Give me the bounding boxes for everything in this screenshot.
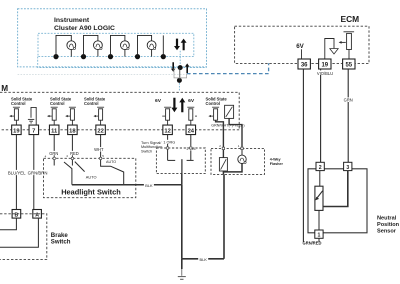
svg-text:Multifunction: Multifunction — [141, 145, 162, 149]
flasher lamp — [238, 150, 246, 164]
wire resistor to pin1 — [318, 210, 320, 230]
svg-text:Headlight Switch: Headlight Switch — [61, 187, 121, 196]
ground net vertical — [181, 185, 183, 259]
ECM internal resistor above pin 55 — [344, 32, 355, 59]
pole wire down to ground net — [181, 174, 183, 185]
brake switch pin B — [12, 210, 21, 219]
svg-text:6V: 6V — [188, 98, 195, 104]
svg-text:WHT: WHT — [94, 147, 104, 152]
bold arrow down (turn signal data) — [171, 98, 177, 112]
svg-text:AUTO: AUTO — [106, 160, 116, 164]
4-way flasher box — [211, 148, 265, 174]
BCM pin 19 — [12, 125, 22, 135]
signal arrow up (inside cluster) — [181, 39, 187, 51]
svg-text:A: A — [35, 212, 39, 218]
turn signal right contact — [187, 159, 194, 161]
ECM pin 19 — [319, 59, 331, 69]
svg-text:GRN: GRN — [49, 151, 58, 156]
svg-text:Instrument: Instrument — [54, 17, 90, 24]
ECM pin 55 — [343, 59, 355, 69]
svg-text:18: 18 — [69, 129, 76, 135]
node J1 — [178, 65, 183, 70]
instrument cluster inner logic box — [38, 33, 194, 56]
solid state driver above pin 22 — [93, 107, 104, 125]
ECM pin 36 — [298, 59, 310, 69]
signal arrow down (inside cluster) — [174, 39, 180, 51]
turn signal terminal ticks — [167, 147, 192, 149]
indicator lamp L1 — [67, 41, 76, 57]
wire label 1 ORG — [162, 140, 177, 145]
svg-text:Switch: Switch — [141, 150, 152, 154]
BCM pin 11 — [49, 125, 59, 135]
svg-text:B: B — [15, 212, 19, 218]
node J2 — [177, 78, 182, 83]
solid state driver (hazard) — [208, 107, 219, 120]
svg-text:36: 36 — [301, 63, 308, 69]
junction dot D2 and feed hook — [81, 35, 98, 59]
wire pin3 to wiper (thick) — [323, 171, 348, 207]
BCM pin 18 — [68, 125, 78, 135]
BCM pin 22 — [96, 125, 106, 135]
headlight switch common bus to BLK wire — [72, 184, 182, 186]
svg-text:Sensor: Sensor — [377, 229, 397, 235]
wire label BLK — [198, 256, 208, 262]
svg-text:6V: 6V — [155, 98, 162, 104]
ECM resistor wiper arrow — [339, 41, 346, 44]
BCM pin 12 — [163, 125, 173, 135]
sensor variable resistor — [315, 186, 323, 210]
solid state switch (hazard) — [225, 105, 234, 118]
svg-text:RED: RED — [70, 151, 79, 156]
svg-text:6V: 6V — [296, 43, 304, 50]
svg-text:4-Way: 4-Way — [270, 158, 282, 162]
svg-text:AUTO: AUTO — [86, 175, 97, 180]
turn signal common pole — [181, 159, 183, 173]
instrument cluster outer box — [18, 9, 207, 67]
ECM box — [235, 26, 369, 63]
indicator lamp L4 — [147, 41, 156, 57]
flasher terminal tick 2 — [222, 147, 224, 149]
headlight switch box — [44, 158, 136, 197]
junction dot D1 and feed hook — [53, 35, 71, 59]
neutral position sensor box — [308, 169, 367, 233]
turn signal switch box — [156, 148, 205, 174]
wire ECM19 to sensor pin 2 — [320, 69, 322, 162]
svg-text:Flasher: Flasher — [270, 162, 284, 166]
switch blade 2 — [75, 162, 85, 172]
headlight terminal ticks — [53, 157, 102, 159]
junction dot D5 with stub — [161, 35, 166, 59]
svg-text:24: 24 — [188, 129, 195, 135]
ground symbol G1 — [178, 259, 186, 280]
dashed link arrows to bus — [179, 51, 181, 57]
serial data wire to ECM (blue dashed) — [187, 63, 269, 73]
wire label GRN — [49, 151, 59, 156]
wire hazard driver to flasher (jog) — [216, 120, 224, 148]
wire label GRN — [343, 97, 353, 102]
turn signal switch label — [141, 141, 162, 154]
wire BCM19 to brake switch B — [15, 135, 17, 210]
bracket wire around junction — [174, 69, 187, 78]
svg-text:ECM: ECM — [341, 14, 360, 24]
svg-text:Control: Control — [11, 101, 26, 106]
svg-text:12: 12 — [164, 129, 170, 135]
neutral position sensor label — [377, 215, 400, 234]
svg-text:GRN/RED: GRN/RED — [303, 241, 322, 246]
wire BCM12 to turn signal switch — [167, 135, 169, 161]
4-way flasher label — [270, 158, 284, 167]
svg-text:BLU/YEL: BLU/YEL — [8, 171, 26, 176]
internal ground above pin 7 — [28, 107, 36, 125]
wire flasher down to BLK horizontal — [223, 174, 225, 258]
flasher relay element — [219, 150, 227, 171]
bold arrow up (turn signal data) — [179, 98, 185, 112]
flasher terminal tick 1 — [241, 147, 243, 149]
wire label VIO/BLU — [317, 70, 334, 75]
wire ECM36 to sensor feed (6V) — [302, 69, 304, 242]
solid state driver above pin 12 — [162, 107, 171, 125]
serial data wire J2 to BCM (cyan dashed) — [178, 83, 180, 92]
solid state control label 2 — [50, 96, 72, 105]
svg-text:22: 22 — [97, 129, 103, 135]
svg-text:19: 19 — [13, 129, 20, 135]
brake switch box — [0, 214, 47, 260]
wire BCM24 to turn signal switch — [190, 135, 192, 161]
BCM pin 24 — [186, 125, 196, 135]
BCM box border — [0, 92, 239, 130]
svg-text:11: 11 — [51, 129, 58, 135]
flasher output to ground net — [222, 171, 224, 174]
switch blade 3 — [111, 166, 124, 185]
svg-text:Position: Position — [377, 222, 400, 228]
wire BCM11 to headlight switch — [53, 135, 55, 166]
svg-text:BLK: BLK — [145, 183, 153, 188]
wire BCM7 to brake switch A — [33, 135, 35, 210]
svg-text:GRN/BRN: GRN/BRN — [28, 171, 48, 176]
svg-text:Neutral: Neutral — [377, 215, 397, 221]
svg-text:Turn Signal/: Turn Signal/ — [141, 141, 162, 145]
junction arrow up — [185, 63, 190, 73]
svg-text:7: 7 — [32, 129, 35, 135]
svg-text:Control: Control — [206, 101, 221, 106]
solid state driver above pin 11 — [47, 107, 58, 125]
junction dot D4 and feed hook — [135, 35, 152, 59]
svg-text:Switch: Switch — [51, 238, 71, 245]
dashed link bus to node J1 — [179, 57, 181, 68]
svg-text:Control: Control — [50, 101, 65, 106]
sensor pin 3 — [344, 162, 352, 171]
wire pin A internal — [0, 218, 38, 247]
wire hazard switch to flasher lamp (jog) — [229, 118, 242, 148]
junction dot D3 and feed hook — [108, 35, 125, 59]
6V supply label at ECM pin 36 — [296, 43, 304, 59]
svg-text:BLK: BLK — [200, 257, 208, 262]
solid state control label 3 — [84, 96, 106, 105]
solid state driver above pin 24 — [187, 107, 197, 125]
wire label 2 YEL — [186, 146, 197, 151]
ECM internal ground hook above pin 19 — [325, 39, 338, 60]
svg-text:2: 2 — [319, 165, 322, 171]
lamp bus (cyan dashed) — [38, 57, 207, 68]
wire label BLK — [144, 182, 154, 188]
wire pin B internal — [0, 218, 16, 230]
brake switch pin A — [33, 210, 42, 219]
svg-text:55: 55 — [345, 63, 352, 69]
svg-text:1: 1 — [318, 233, 321, 239]
svg-text:3: 3 — [346, 165, 349, 171]
svg-text:M: M — [1, 84, 8, 93]
BCM pin 7 — [29, 125, 39, 135]
svg-text:1 ORG: 1 ORG — [163, 141, 175, 145]
sensor pin 2 — [316, 162, 324, 171]
svg-text:VIO/BLU: VIO/BLU — [317, 71, 333, 76]
solid state driver above pin 19 — [9, 107, 20, 125]
indicator lamp L2 — [94, 41, 103, 57]
wire J1 to J2 — [179, 68, 181, 81]
svg-text:19: 19 — [321, 63, 328, 69]
wire label RED — [70, 151, 80, 156]
wire label GRN/BRN — [28, 170, 48, 176]
brake switch label — [51, 232, 71, 245]
wire BCM22 to headlight switch — [101, 135, 111, 167]
indicator lamp L3 — [121, 41, 130, 57]
wire pin2 to resistor — [319, 171, 321, 187]
solid state driver above pin 18 — [65, 107, 76, 125]
switch blade 1 — [64, 162, 72, 185]
sensor wiper arrow — [315, 191, 322, 201]
solid state control label 4 — [206, 96, 228, 105]
turn signal left contact — [168, 159, 176, 161]
sensor pin 1 — [315, 230, 323, 239]
wire label BLU/YEL — [8, 170, 26, 176]
wire ECM55 to sensor pin 3 — [347, 69, 349, 162]
svg-text:Cluster A90 LOGIC: Cluster A90 LOGIC — [54, 25, 115, 32]
wire label WHT — [94, 147, 104, 152]
flasher internal bottom wire — [223, 164, 242, 172]
solid state control label 1 — [11, 96, 33, 105]
ground net horizontal — [182, 258, 224, 260]
junction arrow down — [171, 62, 176, 72]
svg-text:Control: Control — [84, 101, 99, 106]
svg-text:GRN: GRN — [344, 98, 353, 103]
wire BCM18 to headlight switch — [71, 135, 73, 166]
wire pin1 stub — [318, 238, 320, 242]
